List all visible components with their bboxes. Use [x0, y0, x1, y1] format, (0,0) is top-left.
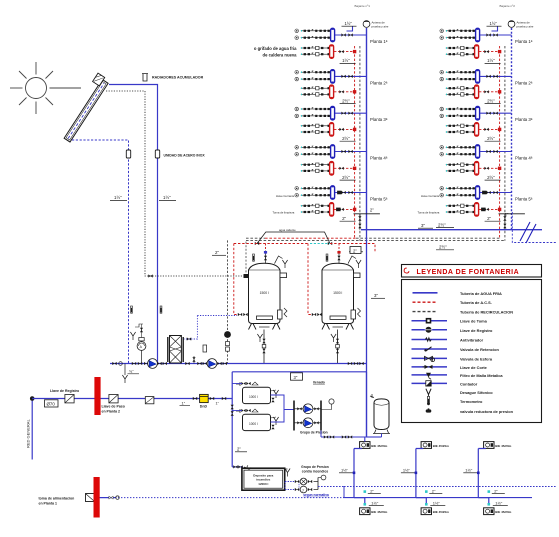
branch rows acs Planta 4ª	[301, 163, 331, 173]
svg-text:1½": 1½"	[345, 21, 353, 26]
booster pump manifolds	[294, 401, 321, 431]
red riser stub	[265, 244, 267, 251]
wire manifold to riser	[335, 191, 367, 194]
legend row: Antivibrador	[412, 338, 484, 343]
air vent at riser top	[342, 21, 389, 32]
water softener	[200, 394, 209, 408]
branch rows blue Planta 1ª	[295, 29, 330, 40]
valves before pump1	[132, 362, 149, 365]
manifold acs Planta 2ª	[475, 85, 479, 99]
valves after softener	[210, 397, 226, 406]
svg-text:Llave de Registro: Llave de Registro	[50, 389, 79, 393]
red general riser	[26, 396, 35, 459]
svg-text:1½": 1½"	[371, 500, 379, 505]
wire manifold to acs riser	[479, 208, 501, 211]
label 3"	[418, 223, 433, 228]
manifold blue Planta 1ª	[476, 28, 480, 42]
tank1 cold inlet valves	[238, 313, 248, 316]
branch rows blue Planta 2ª	[440, 70, 475, 81]
tank1 drain column	[257, 330, 265, 364]
svg-text:valvula reductora de presion: valvula reductora de presion	[460, 409, 514, 414]
svg-text:LEYENDA DE FONTANERIA: LEYENDA DE FONTANERIA	[417, 269, 520, 276]
meter squares top floor	[336, 191, 342, 212]
wire: hot supply from collector (blue solid)	[109, 85, 158, 364]
label 2 below riser1	[349, 247, 363, 252]
lower hose cabinet	[360, 508, 370, 515]
wire manifold to acs riser	[334, 50, 356, 53]
manifold blue Planta 5ª	[331, 186, 335, 200]
label box 2"	[350, 247, 361, 254]
manifold blue Planta 3ª	[331, 106, 335, 120]
manifold blue Planta 2ª	[476, 69, 480, 83]
svg-text:1000 l: 1000 l	[249, 422, 258, 426]
top hose cabinet	[421, 442, 431, 449]
label 1 1/2 low	[430, 500, 445, 505]
svg-text:Bajante nº2: Bajante nº2	[500, 4, 516, 8]
svg-text:2": 2"	[370, 208, 374, 213]
pump discharge	[321, 431, 367, 439]
label 1 1/2 left	[110, 195, 127, 201]
step to lower cabinet	[354, 498, 365, 505]
wire manifold to riser	[335, 150, 367, 153]
svg-text:2½": 2½"	[487, 175, 495, 180]
legend row: Tuberia de RECIRCULACION	[413, 310, 514, 315]
riser main pipe	[511, 28, 513, 230]
svg-text:BIE 45/20m: BIE 45/20m	[433, 444, 449, 448]
acometida main line	[32, 398, 232, 400]
svg-text:de caldera nueva: de caldera nueva	[263, 52, 298, 57]
expansion vessel + gauge group	[130, 324, 146, 364]
branch rows acs Planta 5ª	[301, 204, 331, 214]
svg-text:3": 3"	[421, 223, 425, 228]
heat exchanger / filter	[168, 336, 183, 364]
manifold acs Planta 3ª	[330, 122, 334, 136]
manifold acs Planta 2ª	[330, 85, 334, 99]
wire manifold to acs riser	[479, 90, 501, 93]
valve before softener	[193, 397, 197, 400]
reservoir inlet with float valve	[232, 465, 251, 469]
label pipe size	[485, 175, 501, 180]
label pipe size	[485, 216, 501, 221]
svg-text:2½": 2½"	[342, 136, 350, 141]
air vent on collector supply	[142, 73, 148, 81]
svg-text:2": 2"	[494, 488, 498, 493]
wire manifold to acs riser	[479, 128, 501, 131]
branch rows acs Planta 2ª	[301, 87, 331, 97]
gauge on manifold	[321, 399, 334, 410]
manifold acs Planta 5ª	[330, 202, 334, 216]
accumulator tank 1	[249, 251, 288, 330]
labels toma	[273, 194, 295, 215]
lower hose cabinet	[484, 508, 494, 515]
svg-text:Grupo de Presion: Grupo de Presion	[301, 465, 329, 469]
svg-text:Termometro: Termometro	[460, 399, 483, 404]
label 2 1/2"	[436, 222, 454, 227]
svg-text:Llave Cerrante: Llave Cerrante	[421, 194, 440, 198]
svg-text:Contador: Contador	[460, 381, 478, 386]
wire manifold to riser	[480, 75, 512, 78]
svg-text:prueba y aire: prueba y aire	[517, 24, 534, 28]
svg-text:prueba y aire: prueba y aire	[372, 24, 389, 28]
svg-text:Llave de Registro: Llave de Registro	[460, 328, 493, 333]
label 2"	[492, 488, 505, 493]
label 2"	[368, 488, 381, 493]
svg-text:Llave de Paso: Llave de Paso	[102, 405, 125, 409]
labels toma	[418, 194, 440, 215]
svg-text:3": 3"	[374, 293, 378, 298]
legend row: Valvula de Esfera	[412, 356, 493, 361]
label pipe size	[340, 175, 356, 180]
svg-text:1½": 1½"	[403, 468, 411, 473]
label pipe size	[485, 98, 501, 103]
label toma alimentacion	[39, 497, 75, 506]
safety valve stack	[337, 251, 340, 264]
svg-text:Desague Sifonico: Desague Sifonico	[460, 390, 493, 395]
BIE column	[339, 442, 388, 515]
manifold acs Planta 1ª	[330, 45, 334, 59]
tank2 cold inlet valves	[312, 313, 322, 316]
svg-text:2½": 2½"	[487, 136, 495, 141]
svg-text:Llave de Toma: Llave de Toma	[460, 319, 488, 324]
svg-text:Planta 1ª: Planta 1ª	[515, 39, 533, 44]
tank2 drain column	[331, 330, 339, 364]
wire manifold to acs riser	[334, 90, 356, 93]
svg-text:Planta 3ª: Planta 3ª	[370, 117, 388, 122]
svg-text:BIE 45/20m: BIE 45/20m	[495, 510, 511, 514]
svg-text:2½": 2½"	[438, 222, 446, 227]
acs return main (red dashed)	[265, 237, 356, 239]
step to lower cabinet	[416, 498, 426, 505]
legend row: Valvula de Retencion	[412, 347, 500, 352]
wire manifold to acs riser	[334, 128, 356, 131]
label pipe size	[340, 216, 356, 221]
wire manifold to acs riser	[479, 50, 501, 53]
thermometer on return	[131, 306, 133, 313]
cyan link segment	[310, 243, 330, 245]
svg-text:en Planta 2: en Planta 2	[102, 409, 121, 413]
manifold blue Planta 1ª	[331, 28, 335, 42]
thermometer well	[253, 254, 255, 261]
wire manifold to riser	[480, 112, 512, 115]
wire manifold to riser	[335, 75, 367, 78]
wire manifold to riser	[480, 33, 512, 36]
relief to funnel	[348, 256, 356, 264]
svg-text:Grupo de Presion: Grupo de Presion	[300, 431, 328, 435]
branch rows acs Planta 2ª	[446, 87, 476, 97]
wire manifold to riser	[335, 33, 367, 36]
step to lower cabinet	[478, 498, 489, 505]
svg-text:1½": 1½"	[163, 195, 171, 200]
svg-text:Planta 3ª: Planta 3ª	[515, 117, 533, 122]
pressure tank B	[232, 409, 278, 431]
manifold acs Planta 4ª	[475, 161, 479, 175]
branch rows acs Planta 3ª	[301, 124, 331, 134]
manifold blue Planta 5ª	[476, 186, 480, 200]
label 2"	[429, 488, 442, 493]
shutoff box on return line	[126, 150, 130, 158]
riser 2 group	[418, 4, 534, 241]
BIE column	[463, 442, 511, 515]
legend box	[402, 265, 542, 423]
lower hose cabinet	[421, 508, 431, 515]
svg-text:2½": 2½"	[342, 175, 350, 180]
label 2 1/2 below	[436, 245, 454, 250]
svg-text:1000 l: 1000 l	[249, 395, 258, 399]
stub fire line to first cabinet	[364, 437, 366, 442]
svg-text:Toma de limpieza: Toma de limpieza	[418, 211, 440, 215]
drain end left	[112, 362, 139, 383]
manifold acs Planta 4ª	[330, 161, 334, 175]
legend row: Llave de Toma	[412, 318, 488, 324]
svg-text:2": 2"	[342, 216, 346, 221]
label 3" on vertical	[371, 293, 385, 298]
svg-text:2": 2"	[237, 447, 241, 452]
branch rows acs Planta 5ª	[446, 204, 476, 214]
svg-text:¾": ¾"	[129, 370, 134, 374]
pressure tank A	[232, 382, 278, 404]
legend row: Tuberia de A.C.S.	[413, 300, 492, 305]
wire manifold to riser	[480, 191, 512, 194]
riser ACS dashed pipe	[354, 46, 356, 238]
meter on feed	[86, 494, 95, 502]
meter box mid	[145, 397, 154, 404]
main cold water distribution pipe	[361, 229, 542, 231]
valves after pump2	[217, 362, 227, 365]
pipe break symbol	[520, 222, 536, 243]
main vertical from mains to plant room	[366, 230, 368, 437]
label pipe size	[340, 58, 356, 63]
acs loop tank 2	[308, 244, 311, 315]
svg-text:toma de alimentacion: toma de alimentacion	[39, 497, 75, 501]
svg-text:Toma de limpieza: Toma de limpieza	[273, 211, 295, 215]
legend row: Desague Sifonico	[426, 389, 493, 396]
air vent at riser top	[487, 21, 534, 32]
valves after exchanger	[185, 356, 207, 365]
svg-text:J: J	[302, 488, 304, 492]
manifold blue Planta 4ª	[476, 145, 480, 159]
branch rows blue Planta 3ª	[440, 107, 475, 118]
riser main pipe	[366, 28, 368, 230]
fire pump group	[285, 465, 329, 497]
svg-text:DnD: DnD	[200, 405, 208, 409]
solar collector panel	[58, 73, 110, 142]
svg-text:Llave Cerrante: Llave Cerrante	[276, 194, 295, 198]
solar pump circuit line	[110, 363, 367, 365]
legend row: valvula reductora de presion	[426, 408, 514, 414]
svg-text:Planta 2ª: Planta 2ª	[370, 80, 388, 85]
overflow Y	[285, 469, 290, 477]
svg-text:RADIADORES ACUMULADOR: RADIADORES ACUMULADOR	[152, 76, 204, 80]
sensor boss right	[280, 273, 287, 278]
label pipe size	[485, 136, 501, 141]
svg-text:Planta 4ª: Planta 4ª	[515, 156, 533, 161]
branch rows blue Planta 5ª	[295, 187, 330, 198]
feed line planta baja	[88, 497, 115, 499]
acs return continuation (grey dashed)	[246, 237, 501, 239]
svg-text:Valvula de Retencion: Valvula de Retencion	[460, 347, 500, 352]
branch rows acs Planta 3ª	[446, 124, 476, 134]
manifold blue Planta 2ª	[331, 69, 335, 83]
valve boxes on recirc	[226, 342, 230, 346]
label 1 1/2	[463, 468, 478, 473]
recirculation main (grey dashed)	[246, 239, 505, 241]
branch rows acs Planta 4ª	[446, 163, 476, 173]
valves at tank feed right	[348, 362, 364, 365]
svg-text:2": 2"	[432, 488, 436, 493]
legend row: Contador	[412, 381, 478, 387]
label 2" left of tanks	[212, 250, 226, 255]
branch rows acs Planta 1ª	[446, 46, 476, 56]
manifold acs Planta 5ª	[475, 202, 479, 216]
branch rows blue Planta 5ª	[440, 187, 475, 198]
svg-text:1½": 1½"	[341, 468, 349, 473]
label 2 1/2 near recirc top	[0, 0, 1, 1]
svg-text:1½": 1½"	[465, 468, 473, 473]
red dashed tank2 to mains	[330, 244, 375, 253]
llave de registro	[50, 389, 79, 403]
junction valve on dotted line	[148, 274, 152, 277]
svg-text:2": 2"	[505, 212, 509, 217]
legend row: Llave de Registro	[412, 327, 494, 333]
wire: solar sensor line (black dotted)	[106, 91, 248, 276]
riser 1 group	[273, 4, 389, 241]
manifold blue Planta 4ª	[331, 145, 335, 159]
svg-text:12000 l: 12000 l	[258, 482, 268, 486]
svg-text:Planta 5ª: Planta 5ª	[370, 197, 388, 202]
svg-text:BIE 45/20m: BIE 45/20m	[371, 444, 387, 448]
wire: collector return (blue dashed)	[72, 140, 129, 364]
valve on feed	[109, 496, 119, 499]
note agua caliente caldera	[254, 46, 297, 57]
branch rows blue Planta 3ª	[295, 107, 330, 118]
meter squares top floor	[481, 191, 487, 212]
legend row: Termometro	[427, 397, 483, 406]
legend row: Llave de Corte	[412, 365, 488, 370]
riser bottom shutoff valves	[499, 214, 525, 230]
relief to funnel	[275, 256, 283, 264]
svg-text:Bajante nº1: Bajante nº1	[355, 4, 371, 8]
label 1"	[180, 400, 191, 405]
wire manifold to acs riser	[334, 167, 356, 170]
booster pump 1	[294, 404, 321, 414]
svg-text:1½": 1½"	[433, 500, 441, 505]
svg-text:Tuberia de RECIRCULACION: Tuberia de RECIRCULACION	[460, 310, 513, 315]
svg-text:Planta 1ª: Planta 1ª	[370, 39, 388, 44]
llave de paso	[102, 395, 125, 414]
safety valve stack	[264, 251, 267, 264]
svg-text:1500 l: 1500 l	[260, 291, 269, 295]
sensor boss right	[354, 273, 361, 278]
manifold acs Planta 3ª	[475, 122, 479, 136]
pump P1	[148, 359, 158, 369]
thermometer on supply	[160, 306, 162, 313]
svg-text:3": 3"	[294, 375, 298, 380]
riser recirculation dashed pipe	[504, 46, 506, 241]
svg-text:1½": 1½"	[487, 58, 495, 63]
tanks outlet to pumps	[271, 395, 295, 422]
label 1 1/2 low	[369, 500, 384, 505]
wire manifold to riser	[480, 150, 512, 153]
svg-text:Planta 4ª: Planta 4ª	[370, 156, 388, 161]
label 1 1/2	[339, 468, 354, 473]
acs loop around tank 1 (red dashed)	[234, 244, 237, 315]
valves on left frame	[231, 405, 234, 416]
wall crossing bar 2	[94, 477, 100, 518]
svg-text:1½": 1½"	[114, 195, 122, 200]
svg-text:Planta 5ª: Planta 5ª	[515, 197, 533, 202]
label 1 1/2 low	[493, 500, 508, 505]
booster pump 2	[294, 418, 321, 428]
top hose cabinet	[360, 442, 370, 449]
branch rows blue Planta 4ª	[440, 146, 475, 157]
svg-text:contra incendios: contra incendios	[302, 469, 329, 473]
wire manifold to acs riser	[479, 167, 501, 170]
label 3" on top frame	[291, 373, 303, 380]
red riser stub tank2	[338, 244, 340, 251]
top hose cabinet	[484, 442, 494, 449]
branch rows acs Planta 1ª	[301, 46, 331, 56]
svg-text:2½": 2½"	[439, 245, 447, 250]
legend row: Filtro de Malla Metalica	[412, 373, 504, 380]
svg-text:Ø70: Ø70	[47, 402, 56, 407]
vertical rel valve near pump2	[203, 345, 207, 352]
valve after pump1	[157, 362, 167, 365]
svg-text:1": 1"	[182, 400, 186, 405]
label 1 1/2	[401, 468, 416, 473]
fire main to BIE columns	[318, 486, 344, 488]
riser ACS dashed pipe	[499, 46, 501, 238]
svg-text:Antivibrador: Antivibrador	[460, 338, 484, 343]
svg-text:BIE 45/20m: BIE 45/20m	[371, 510, 387, 514]
svg-text:Valvula de Esfera: Valvula de Esfera	[460, 356, 493, 361]
dotted feed drop	[181, 316, 197, 340]
svg-text:Planta 2ª: Planta 2ª	[515, 80, 533, 85]
plant room piping frame	[231, 399, 233, 467]
svg-text:o grifado de agua fria: o grifado de agua fria	[254, 46, 297, 51]
svg-text:Tuberia de AGUA FRIA: Tuberia de AGUA FRIA	[460, 291, 502, 296]
svg-text:2": 2"	[370, 488, 374, 493]
label 2" on left frame	[235, 447, 247, 452]
svg-text:1500 l: 1500 l	[333, 291, 342, 295]
manifold blue Planta 3ª	[476, 106, 480, 120]
wire manifold to acs riser	[334, 208, 356, 211]
diameter box	[45, 400, 59, 407]
svg-text:RED GENERAL: RED GENERAL	[26, 419, 31, 448]
svg-text:segun normativa: segun normativa	[303, 493, 329, 497]
tee up from dotted line to recirculation	[245, 240, 247, 276]
svg-text:UNIDAD DE ACERO INOX: UNIDAD DE ACERO INOX	[164, 154, 206, 158]
riser bottom shutoff valves	[354, 214, 380, 230]
BIE column	[401, 442, 449, 515]
label pipe size	[340, 136, 356, 141]
svg-text:2½": 2½"	[487, 98, 495, 103]
svg-text:2": 2"	[353, 248, 357, 253]
thermometer well	[326, 254, 328, 261]
svg-text:llenado: llenado	[313, 381, 325, 385]
svg-text:1½": 1½"	[490, 21, 498, 26]
check valve on recirc	[224, 331, 231, 338]
svg-text:en Planta 1: en Planta 1	[39, 501, 58, 505]
svg-text:Tuberia de A.C.S.: Tuberia de A.C.S.	[460, 300, 492, 305]
legend row: Tuberia de AGUA FRIA	[413, 291, 502, 296]
branch rows blue Planta 1ª	[440, 29, 475, 40]
branch rows blue Planta 4ª	[295, 146, 330, 157]
svg-text:2": 2"	[487, 216, 491, 221]
svg-text:BIE 45/20m: BIE 45/20m	[433, 510, 449, 514]
manifold acs Planta 1ª	[475, 45, 479, 59]
svg-text:1½": 1½"	[342, 58, 350, 63]
svg-text:BIE 45/20m: BIE 45/20m	[495, 444, 511, 448]
